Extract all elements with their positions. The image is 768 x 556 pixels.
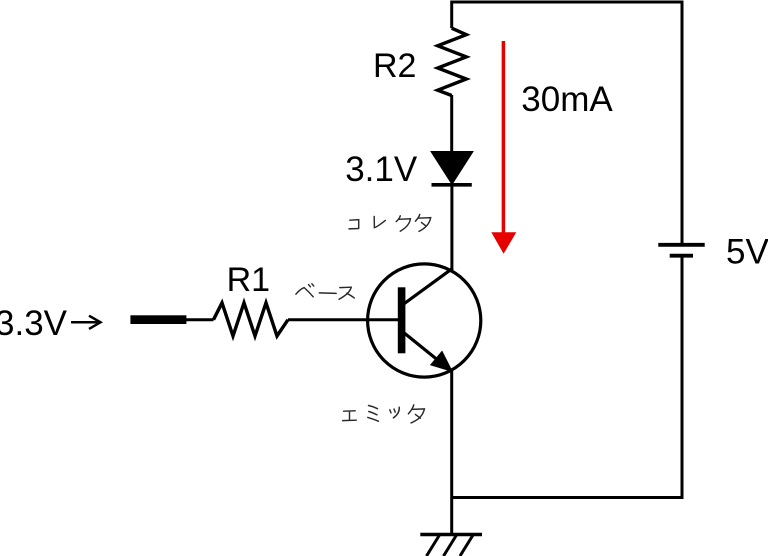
wire R1 to base xyxy=(288,318,400,321)
ground xyxy=(420,535,482,556)
svg-text:30mA: 30mA xyxy=(521,80,613,119)
battery 5V xyxy=(658,245,704,256)
wire top-left vertical to R2 xyxy=(450,1,453,29)
wire bottom horizontal xyxy=(452,496,684,499)
terminal input bar xyxy=(130,315,186,324)
label besu (base) xyxy=(296,284,354,300)
input arrow xyxy=(71,316,101,329)
resistor R2 xyxy=(438,28,467,95)
label korekuta (collector) xyxy=(349,214,431,231)
wire emitter vertical xyxy=(450,370,453,535)
current arrow 30mA xyxy=(491,41,516,254)
label emitta (emitter) xyxy=(343,405,425,423)
wire top horizontal xyxy=(452,1,682,4)
svg-text:R1: R1 xyxy=(227,261,270,299)
diode D1 xyxy=(431,152,473,185)
resistor R1 xyxy=(214,303,289,336)
wire base horizontal xyxy=(186,318,214,321)
svg-text:3.3V: 3.3V xyxy=(0,304,68,343)
wire diode to collector xyxy=(450,184,453,270)
wire battery to bottom xyxy=(681,257,684,499)
svg-text:3.1V: 3.1V xyxy=(345,150,418,189)
wire R2 to diode xyxy=(450,95,453,152)
wire right vertical to battery xyxy=(681,1,684,244)
svg-text:R2: R2 xyxy=(373,47,416,85)
svg-text:5V: 5V xyxy=(726,233,768,272)
transistor Q1 xyxy=(368,264,481,377)
